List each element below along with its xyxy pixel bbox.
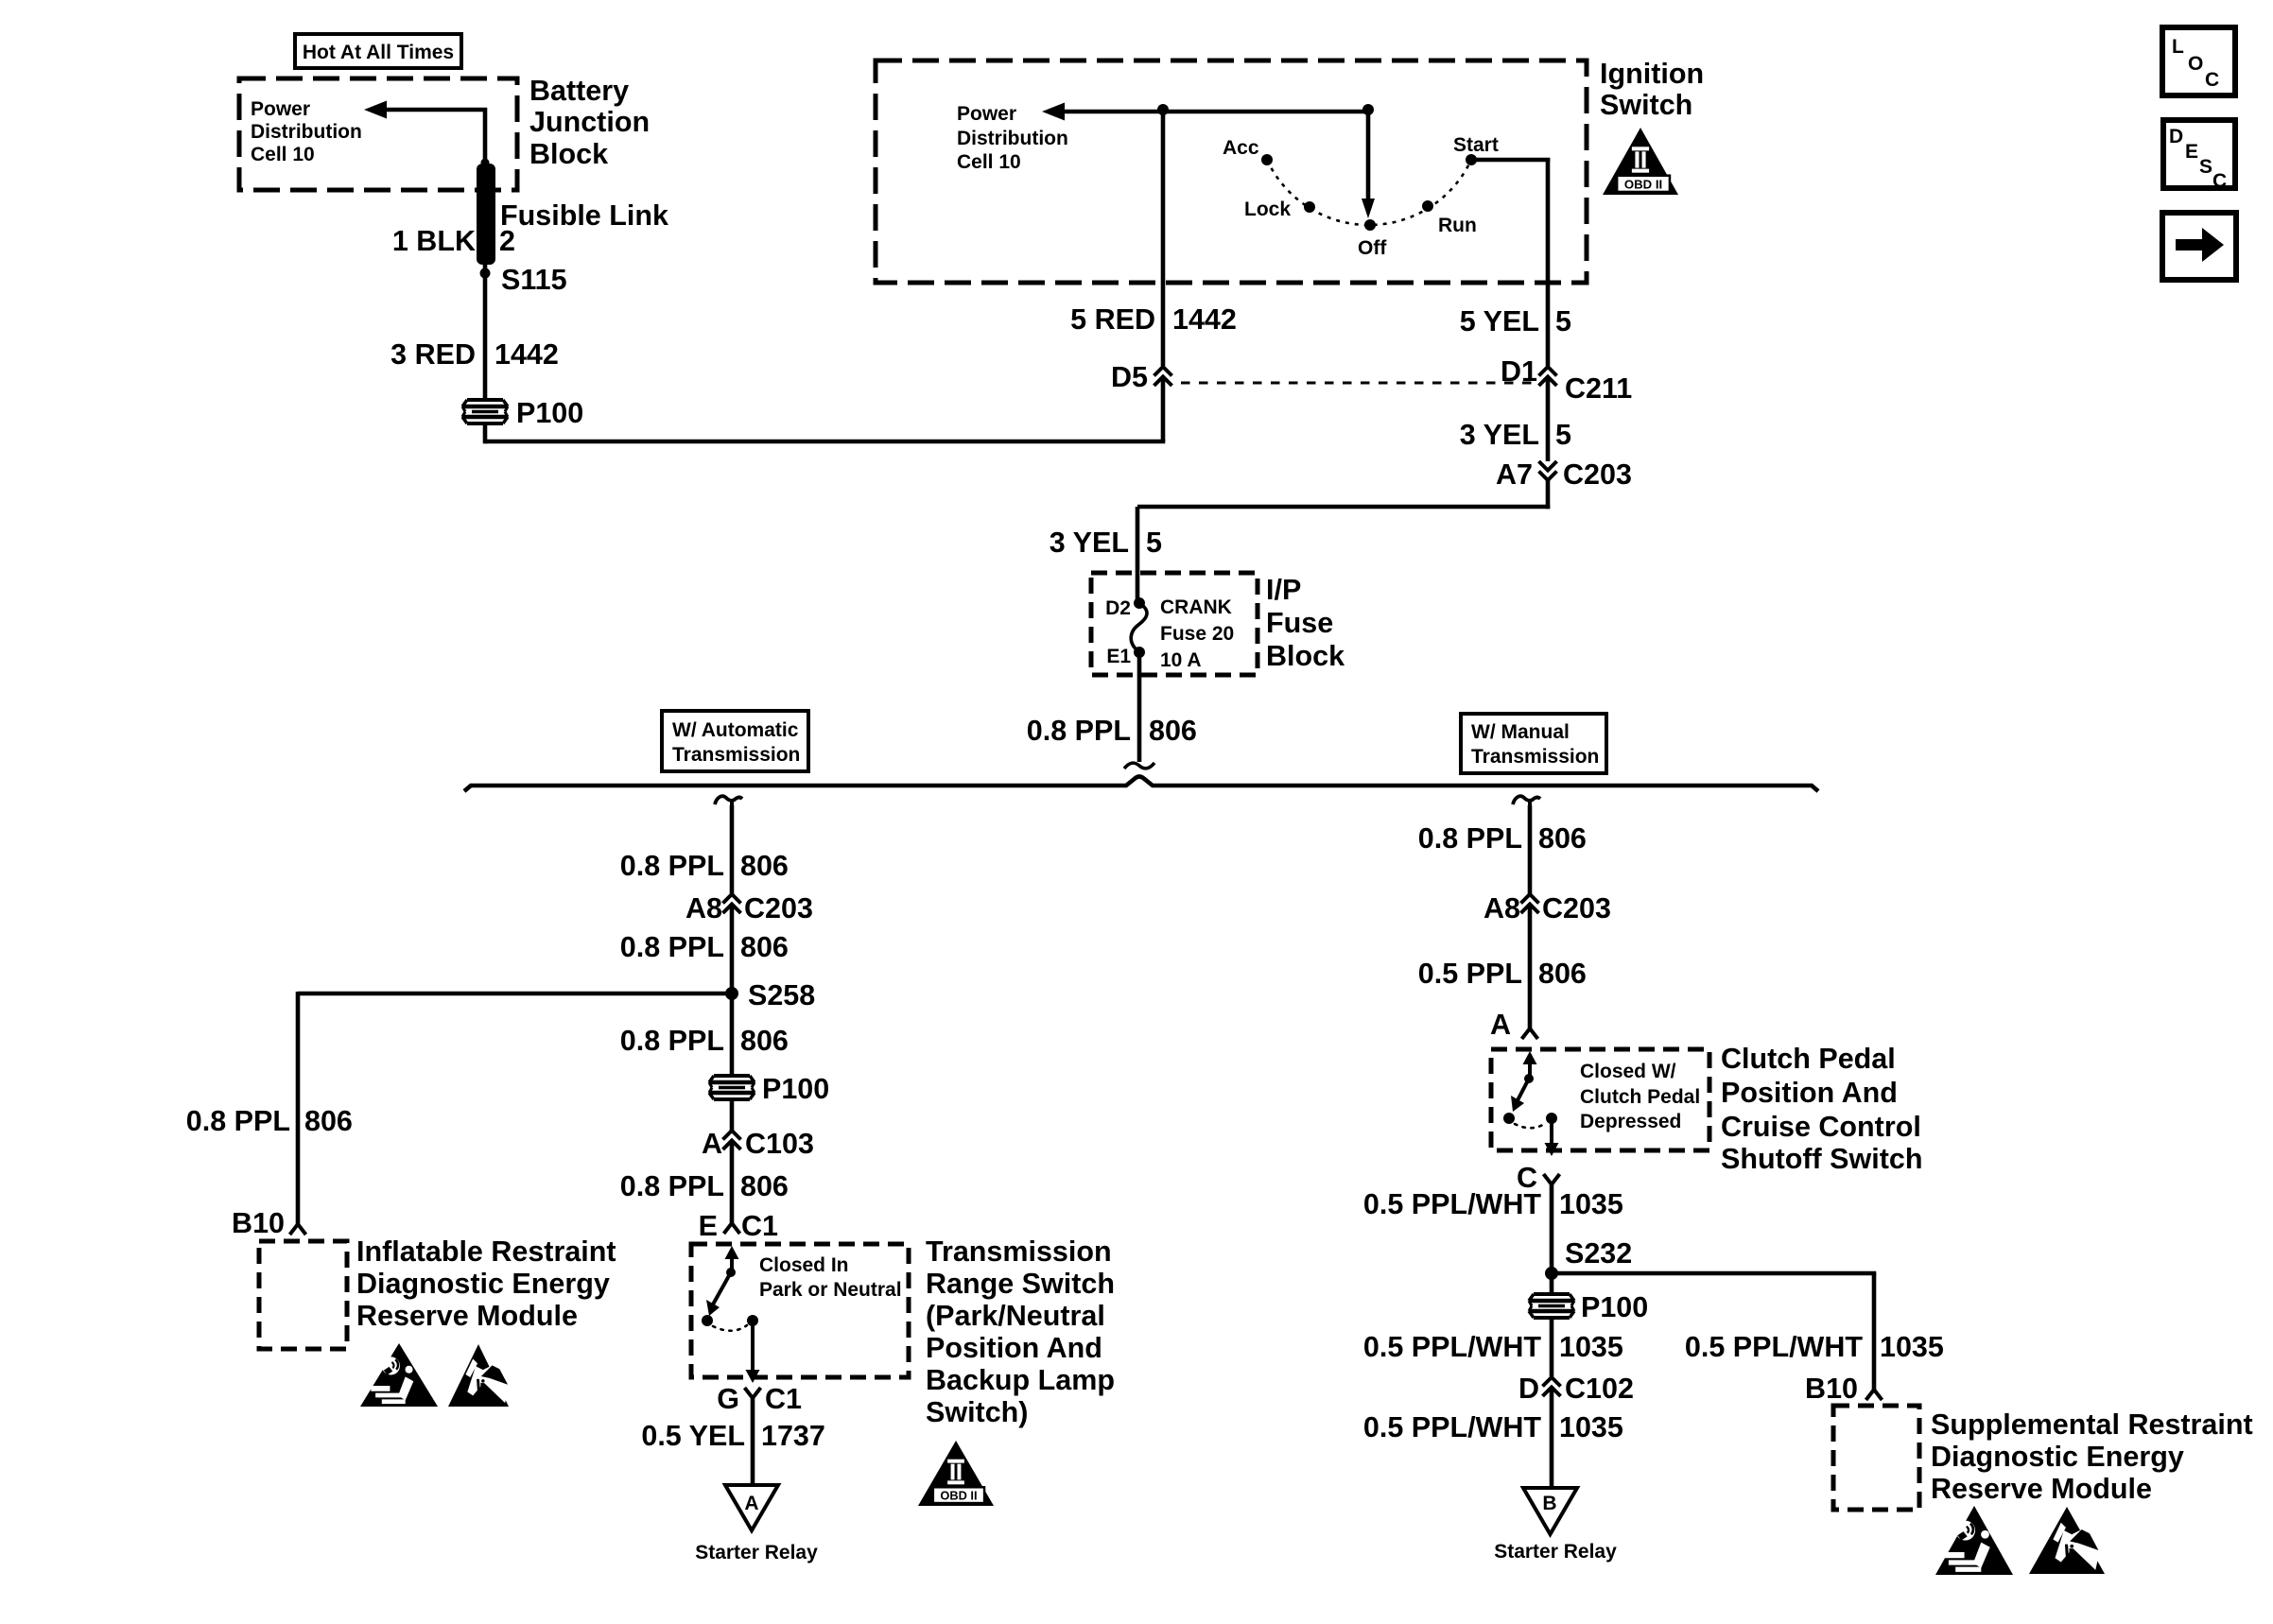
svg-text:Acc: Acc [1223,137,1259,159]
svg-text:806: 806 [740,1025,789,1057]
svg-text:Fuse 20: Fuse 20 [1160,623,1234,645]
svg-text:B10: B10 [232,1207,285,1239]
svg-text:D2: D2 [1105,597,1131,619]
svg-text:Start: Start [1453,134,1499,156]
svg-text:C211: C211 [1565,372,1632,405]
svg-text:Power: Power [957,103,1016,125]
svg-text:5: 5 [1555,419,1571,451]
svg-text:B10: B10 [1805,1373,1858,1405]
svg-text:806: 806 [740,850,789,882]
svg-text:Clutch Pedal: Clutch Pedal [1580,1086,1700,1108]
svg-text:C: C [2205,69,2219,91]
svg-text:806: 806 [304,1105,353,1137]
svg-text:Run: Run [1438,215,1477,236]
svg-text:O: O [2188,53,2203,75]
svg-text:1 BLK: 1 BLK [392,225,476,257]
svg-text:0.5 PPL/WHT: 0.5 PPL/WHT [1363,1188,1541,1220]
svg-text:Cell 10: Cell 10 [957,151,1021,173]
svg-text:Closed In: Closed In [759,1254,849,1276]
svg-text:Off: Off [1358,237,1387,259]
svg-text:Depressed: Depressed [1580,1111,1681,1132]
svg-text:0.8 PPL: 0.8 PPL [1418,822,1522,855]
svg-text:Transmission: Transmission [672,744,800,766]
svg-text:Starter Relay: Starter Relay [695,1542,818,1564]
svg-text:Hot At All Times: Hot At All Times [303,42,454,63]
svg-text:D1: D1 [1501,355,1537,388]
svg-text:S115: S115 [501,264,567,296]
svg-text:OBD II: OBD II [1624,177,1662,191]
svg-text:C: C [2212,170,2227,192]
svg-text:C1: C1 [741,1210,778,1242]
svg-text:E: E [699,1210,718,1242]
svg-text:Distribution: Distribution [957,128,1068,149]
svg-text:S258: S258 [748,979,815,1011]
svg-text:S: S [2199,156,2212,178]
svg-text:P100: P100 [516,397,583,429]
svg-text:A: A [702,1128,722,1160]
svg-text:Lock: Lock [1244,199,1291,220]
svg-text:2: 2 [499,225,515,257]
svg-text:Backup Lamp: Backup Lamp [926,1364,1115,1396]
svg-text:Diagnostic Energy: Diagnostic Energy [1931,1441,2184,1473]
svg-text:Distribution: Distribution [251,121,362,143]
svg-text:5 RED: 5 RED [1070,303,1155,336]
svg-text:1035: 1035 [1880,1331,1944,1363]
svg-text:0.5 YEL: 0.5 YEL [641,1420,745,1452]
svg-text:CRANK: CRANK [1160,596,1232,618]
svg-text:806: 806 [1149,715,1197,747]
svg-text:Junction: Junction [529,106,650,138]
svg-text:W/ Manual: W/ Manual [1471,721,1570,743]
svg-text:L: L [2172,36,2184,58]
svg-text:0.8 PPL: 0.8 PPL [620,931,724,963]
svg-text:C102: C102 [1565,1373,1634,1405]
svg-text:A: A [1490,1009,1511,1041]
svg-text:A: A [744,1493,758,1514]
svg-text:0.8 PPL: 0.8 PPL [620,1170,724,1202]
svg-text:C203: C203 [1563,458,1632,491]
svg-text:0.5 PPL/WHT: 0.5 PPL/WHT [1363,1411,1541,1443]
svg-text:G: G [717,1383,739,1415]
svg-text:E1: E1 [1106,646,1131,667]
svg-text:0.5 PPL/WHT: 0.5 PPL/WHT [1363,1331,1541,1363]
svg-text:I/P: I/P [1266,574,1301,606]
svg-text:Diagnostic Energy: Diagnostic Energy [356,1268,610,1300]
svg-text:Range Switch: Range Switch [926,1268,1115,1300]
svg-text:Block: Block [529,138,608,170]
svg-text:Reserve Module: Reserve Module [356,1300,578,1332]
svg-text:Cruise Control: Cruise Control [1721,1111,1921,1143]
svg-text:D: D [2169,126,2183,147]
svg-text:D: D [1518,1373,1539,1405]
svg-text:1035: 1035 [1559,1411,1623,1443]
svg-text:0.5 PPL: 0.5 PPL [1418,958,1522,990]
svg-text:Shutoff Switch: Shutoff Switch [1721,1143,1922,1175]
svg-text:1035: 1035 [1559,1331,1623,1363]
svg-text:C103: C103 [745,1128,814,1160]
svg-text:S232: S232 [1565,1237,1632,1270]
svg-text:806: 806 [740,1170,789,1202]
svg-text:3 YEL: 3 YEL [1460,419,1539,451]
svg-text:Starter Relay: Starter Relay [1494,1541,1617,1563]
svg-text:Inflatable Restraint: Inflatable Restraint [356,1235,616,1268]
svg-text:Park or Neutral: Park or Neutral [759,1279,902,1301]
svg-text:806: 806 [1538,822,1587,855]
svg-text:Power: Power [251,98,310,120]
svg-text:D5: D5 [1111,361,1148,393]
svg-text:Ignition: Ignition [1600,58,1704,90]
svg-text:1442: 1442 [1172,303,1237,336]
svg-text:Fusible Link: Fusible Link [500,199,668,232]
svg-text:Position And: Position And [926,1332,1102,1364]
svg-text:806: 806 [1538,958,1587,990]
svg-text:OBD II: OBD II [940,1489,977,1503]
svg-text:Supplemental Restraint: Supplemental Restraint [1931,1408,2253,1441]
svg-text:5 YEL: 5 YEL [1460,305,1539,337]
svg-text:Fuse: Fuse [1266,607,1333,639]
svg-text:0.8 PPL: 0.8 PPL [1027,715,1131,747]
svg-text:Transmission: Transmission [926,1235,1112,1268]
svg-text:P100: P100 [1581,1291,1648,1323]
svg-text:A7: A7 [1496,458,1533,491]
svg-text:0.8 PPL: 0.8 PPL [620,1025,724,1057]
svg-text:1737: 1737 [761,1420,825,1452]
svg-text:5: 5 [1146,527,1162,559]
svg-text:A8: A8 [685,892,722,924]
svg-text:Clutch Pedal: Clutch Pedal [1721,1043,1896,1075]
svg-text:0.8 PPL: 0.8 PPL [186,1105,290,1137]
svg-text:C203: C203 [744,892,813,924]
svg-text:5: 5 [1555,305,1571,337]
svg-text:A8: A8 [1484,892,1520,924]
svg-text:1035: 1035 [1559,1188,1623,1220]
svg-text:C1: C1 [765,1383,802,1415]
svg-text:B: B [1542,1493,1556,1514]
svg-text:0.8 PPL: 0.8 PPL [620,850,724,882]
svg-text:Closed W/: Closed W/ [1580,1061,1676,1082]
svg-text:Block: Block [1266,640,1345,672]
svg-text:E: E [2185,141,2198,163]
svg-text:C203: C203 [1542,892,1611,924]
svg-text:Switch): Switch) [926,1396,1028,1428]
svg-text:806: 806 [740,931,789,963]
svg-text:Position And: Position And [1721,1077,1898,1109]
svg-text:1442: 1442 [495,338,559,371]
svg-text:Cell 10: Cell 10 [251,144,315,165]
svg-text:P100: P100 [762,1073,829,1105]
svg-text:(Park/Neutral: (Park/Neutral [926,1300,1105,1332]
svg-text:W/ Automatic: W/ Automatic [672,719,799,741]
svg-text:10 A: 10 A [1160,649,1202,671]
svg-text:3 RED: 3 RED [390,338,476,371]
svg-text:3 YEL: 3 YEL [1050,527,1129,559]
svg-text:0.5 PPL/WHT: 0.5 PPL/WHT [1685,1331,1863,1363]
svg-text:Battery: Battery [529,75,629,107]
svg-text:Transmission: Transmission [1471,746,1599,768]
svg-text:Switch: Switch [1600,89,1692,121]
svg-text:Reserve Module: Reserve Module [1931,1473,2152,1505]
